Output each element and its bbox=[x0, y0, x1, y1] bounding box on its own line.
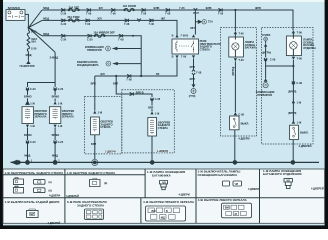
legend box1 connector (b) bbox=[14, 186, 24, 193]
row3 splice connector bbox=[118, 34, 124, 41]
legend box4 connector a bbox=[223, 181, 230, 186]
feed row junction dot right bbox=[140, 75, 142, 77]
svg-text:4 ДВЕРЕЙ: 4 ДВЕРЕЙ bbox=[48, 221, 61, 225]
svg-text:1-Ж: 1-Ж bbox=[58, 124, 63, 128]
fuse 15A MIRROR DEF bbox=[93, 30, 115, 37]
svg-text:4 ДВЕРЕЙ: 4 ДВЕРЕЙ bbox=[311, 187, 324, 191]
svg-text:20А P.DEF: 20А P.DEF bbox=[67, 15, 80, 19]
svg-text:1-ДВЕРИ: 1-ДВЕРИ bbox=[105, 150, 116, 154]
row1 splice connector bbox=[165, 8, 171, 15]
legend box2 connector bbox=[90, 178, 101, 186]
generator G1 bbox=[20, 61, 35, 68]
bottom page border bar bbox=[0, 225, 328, 229]
legend box5 bulb socket pictogram bbox=[284, 179, 292, 189]
legend box1 connector (c) bbox=[34, 179, 46, 184]
right page border bar bbox=[325, 0, 328, 229]
switch2 pin arrow bbox=[292, 120, 302, 124]
wire lighter to crossbar bbox=[266, 61, 294, 66]
wire battery to main junction bbox=[25, 14, 28, 26]
svg-text:ПРИБОРОВ: ПРИБОРОВ bbox=[87, 48, 102, 52]
svg-text:1-Ж ОБОГРЕВ ЗАДНЕГО СТЕКЛА: 1-Ж ОБОГРЕВ ЗАДНЕГО СТЕКЛА bbox=[67, 171, 117, 175]
svg-text:1-Ж ОБОГРЕВАТЕЛЬ ЗАДНЕГО СТЕКЛ: 1-Ж ОБОГРЕВАТЕЛЬ ЗАДНЕГО СТЕКЛА bbox=[5, 171, 65, 175]
left page border bar bbox=[0, 0, 3, 229]
svg-text:ЧЛ: ЧЛ bbox=[235, 182, 239, 186]
relay U1 rear window defogger relay bbox=[172, 39, 199, 54]
svg-text:ГЕНЕРАТОР: ГЕНЕРАТОР bbox=[20, 64, 35, 68]
svg-text:МОД: МОД bbox=[26, 53, 32, 57]
switch2 ground dot bbox=[291, 160, 296, 165]
svg-text:Г-06: Г-06 bbox=[85, 22, 91, 26]
right defogger ground wire bbox=[151, 136, 153, 162]
svg-text:(б): (б) bbox=[49, 188, 52, 192]
svg-text:4-ДВЕРИ: 4-ДВЕРИ bbox=[179, 192, 190, 196]
svg-text:1-Ж: 1-Ж bbox=[297, 121, 302, 125]
svg-text:(ГТИ): (ГТИ) bbox=[189, 94, 196, 98]
svg-text:Б: Б bbox=[172, 34, 174, 38]
legend row divider bbox=[3, 197, 325, 199]
svg-text:ПРИБОРОВ: ПРИБОРОВ bbox=[257, 93, 272, 97]
trunk compartment lamp EL2 bbox=[286, 33, 301, 55]
svg-text:М: М bbox=[235, 212, 237, 216]
switch1 ground wire bbox=[234, 130, 236, 162]
svg-text:ЦР: ЦР bbox=[30, 212, 34, 216]
row2 splice connector bbox=[124, 19, 130, 26]
svg-text:ОСВЕЩЕНИЯ БАГАЖНИКА: ОСВЕЩЕНИЯ БАГАЖНИКА bbox=[198, 173, 238, 177]
bus row 2 wire bbox=[42, 20, 177, 37]
row2 splice connector C-30 bbox=[61, 19, 67, 26]
svg-text:S-30: S-30 bbox=[31, 47, 37, 51]
svg-text:ЗЕРКАЛА: ЗЕРКАЛА bbox=[62, 115, 74, 119]
relay bottom pin 1 arrow bbox=[172, 55, 179, 59]
svg-text:СТЕКЛА: СТЕКЛА bbox=[100, 125, 110, 129]
svg-text:1-Ж: 1-Ж bbox=[297, 100, 302, 104]
svg-text:Г-06: Г-06 bbox=[86, 12, 92, 16]
row3 junction dot bbox=[132, 35, 134, 37]
svg-text:Г-08: Г-08 bbox=[127, 77, 133, 81]
svg-text:МГЛ: МГЛ bbox=[190, 77, 196, 81]
svg-text:Т-06: Т-06 bbox=[297, 31, 303, 35]
luggage lamp switch SA2 bbox=[290, 125, 299, 139]
svg-text:С-30: С-30 bbox=[61, 37, 67, 41]
svg-text:БАГАЖН.: БАГАЖН. bbox=[245, 46, 257, 50]
svg-text:БРЛ: БРЛ bbox=[148, 105, 153, 109]
svg-text:1-Ж: 1-Ж bbox=[155, 111, 160, 115]
svg-text:4-ДВЕРЕЙ: 4-ДВЕРЕЙ bbox=[66, 194, 79, 198]
row1 splice connector bbox=[111, 8, 117, 15]
relay top pin 2 arrow bbox=[181, 34, 196, 38]
right mirror branch splice C-20 bbox=[26, 87, 36, 95]
svg-text:Г-06: Г-06 bbox=[181, 55, 187, 59]
lamp1 pin arrow T-06 bbox=[234, 31, 245, 36]
svg-text:МОД: МОД bbox=[43, 32, 49, 36]
right defogger splice C-08 bbox=[150, 97, 160, 105]
svg-text:ЦИГРЫ: ЦИГРЫ bbox=[262, 50, 272, 54]
row2 tee stub bbox=[137, 19, 141, 22]
svg-text:ЖЛБ: ЖЛБ bbox=[153, 6, 159, 10]
relay output wire to defogger feed row bbox=[95, 58, 177, 76]
svg-text:Т-06: Т-06 bbox=[238, 32, 244, 36]
svg-text:ЖЛ: ЖЛ bbox=[99, 6, 103, 10]
left mirror ground splice C-20 bbox=[54, 131, 64, 162]
svg-text:С-20: С-20 bbox=[30, 87, 36, 91]
legend box6 connector bbox=[26, 209, 38, 217]
lamp1 to switch wire bbox=[234, 61, 236, 112]
switch2 ground wire bbox=[292, 140, 294, 162]
svg-text:БРЛ: БРЛ bbox=[91, 82, 96, 86]
svg-text:(в): (в) bbox=[104, 181, 107, 185]
fuse S-30 below junction bbox=[27, 30, 37, 37]
fusible link MAX 80A bbox=[27, 37, 37, 47]
svg-text:4-ДВЕРИ: 4-ДВЕРИ bbox=[49, 194, 60, 198]
battery GB1 bbox=[6, 10, 25, 21]
svg-text:S-МОД: S-МОД bbox=[50, 55, 59, 59]
svg-text:1-Ж ВЫКЛЮЧАТЕЛЬ ЗАДНЕЙ ДВЕРИ: 1-Ж ВЫКЛЮЧАТЕЛЬ ЗАДНЕЙ ДВЕРИ bbox=[5, 200, 60, 204]
svg-text:ВЗ: ВЗ bbox=[156, 72, 160, 76]
svg-text:БРЛ-Б: БРЛ-Б bbox=[136, 90, 144, 94]
relay top pin 1 arrow bbox=[172, 34, 179, 38]
svg-text:4 ДВЕРИ: 4 ДВЕРИ bbox=[248, 187, 259, 191]
main junction node bbox=[28, 10, 56, 52]
row1 splice connector G-06 bbox=[218, 8, 224, 15]
left mirror pin arrow 1-Zh bbox=[53, 98, 63, 105]
legend row2 column dividers bbox=[64, 198, 66, 224]
svg-text:Г-06: Г-06 bbox=[111, 12, 117, 16]
svg-text:С-08: С-08 bbox=[270, 57, 276, 61]
svg-text:Б: Б bbox=[172, 55, 174, 59]
svg-text:С-08: С-08 bbox=[155, 97, 161, 101]
svg-text:Т-06: Т-06 bbox=[297, 57, 303, 61]
feed row junction dot left bbox=[115, 75, 117, 77]
trunk lamp EL1 bbox=[229, 34, 244, 57]
bus row 3 wire bbox=[42, 36, 141, 49]
svg-text:4 ДВЕРИ: 4 ДВЕРИ bbox=[238, 137, 249, 141]
legend box1 connector (d) bbox=[34, 188, 46, 193]
svg-text:S-30: S-30 bbox=[31, 30, 37, 34]
svg-text:МОД: МОД bbox=[24, 154, 30, 158]
lighter splice arrow C-08 bbox=[264, 47, 276, 62]
svg-text:БМ: БМ bbox=[225, 206, 229, 210]
svg-text:ЗАДНЕГО СТЕКЛА: ЗАДНЕГО СТЕКЛА bbox=[77, 203, 105, 207]
svg-text:МОД: МОД bbox=[43, 16, 49, 20]
relay ground chain wire bbox=[193, 58, 195, 84]
svg-text:ЖЛ: ЖЛ bbox=[97, 16, 101, 20]
svg-text:ЧЛ: ЧЛ bbox=[286, 179, 290, 183]
dashed enclosure rear defogger element left bbox=[85, 97, 122, 154]
trunk lamp switch SA1 bbox=[230, 116, 239, 130]
right mirror ground dot bbox=[25, 160, 30, 165]
left mirror heater element R2 bbox=[49, 107, 60, 124]
svg-text:(БРГЛ): (БРГЛ) bbox=[288, 111, 297, 115]
trunk lamp 2 feed wire from top row bbox=[292, 11, 294, 30]
legend box7 six pin connector bbox=[85, 209, 104, 219]
svg-text:Г-08: Г-08 bbox=[124, 22, 130, 26]
fuse 30A DEF bbox=[68, 5, 79, 11]
svg-text:(а): (а) bbox=[49, 180, 52, 184]
svg-text:Т2А: Т2А bbox=[208, 20, 213, 24]
legend box8 multi pin connector bbox=[146, 206, 186, 221]
svg-text:1-Ж: 1-Ж bbox=[30, 101, 35, 105]
lamp1 bottom pin arrow T-06 bbox=[234, 58, 245, 62]
left defogger pin arrow 1-Zh bbox=[93, 101, 103, 114]
branch splice connector bbox=[130, 90, 144, 95]
row1 splice connector bbox=[141, 8, 147, 15]
svg-text:МГЛ: МГЛ bbox=[190, 65, 196, 69]
svg-text:С-08: С-08 bbox=[296, 81, 302, 85]
left defogger ground wire bbox=[94, 135, 96, 159]
svg-text:СГИВЗ: СГИВЗ bbox=[262, 33, 271, 37]
svg-text:С-30: С-30 bbox=[61, 12, 67, 16]
svg-text:С-20: С-20 bbox=[30, 140, 36, 144]
row1 splice connector G-06 bbox=[86, 8, 92, 15]
dashed enclosure trunk lamp and switch left bbox=[221, 28, 257, 137]
ground bus left terminator bbox=[11, 160, 21, 166]
right mirror ground splice C-20 bbox=[26, 131, 36, 162]
legend row1 column dividers bbox=[64, 169, 66, 198]
lamp2 bottom pin arrow T-06 bbox=[292, 57, 303, 61]
AC switch indicator arrow bbox=[106, 61, 118, 66]
right mirror pin arrow 1-Zh bbox=[26, 98, 36, 105]
row1 splice connector C-30 bbox=[61, 8, 67, 15]
left mirror branch splice C-20 bbox=[54, 87, 64, 95]
right mirror heater element R1 bbox=[22, 107, 33, 124]
svg-text:4-Ж ОБОГРЕВ ПРАВОГО ЗЕРКАЛА: 4-Ж ОБОГРЕВ ПРАВОГО ЗЕРКАЛА bbox=[143, 200, 195, 204]
cigarette lighter symbol bbox=[262, 33, 272, 54]
branch to right defogger element bbox=[116, 76, 152, 97]
svg-text:10А ROOM: 10А ROOM bbox=[123, 4, 136, 8]
left mirror ground dot bbox=[53, 160, 58, 165]
svg-text:С-20: С-20 bbox=[58, 87, 64, 91]
svg-text:Б: Б bbox=[166, 209, 168, 213]
lamp2 pin arrow T-06 bbox=[292, 30, 303, 34]
legend panel background bbox=[3, 169, 325, 223]
row2 splice connector bbox=[149, 19, 155, 26]
row3 splice connector bbox=[61, 34, 67, 41]
svg-text:БАГАЖНОГО ОТДЕЛЕНИЯ: БАГАЖНОГО ОТДЕЛЕНИЯ bbox=[263, 172, 301, 176]
svg-text:БРЛ: БРЛ bbox=[91, 142, 96, 146]
svg-text:МГЛ: МГЛ bbox=[190, 26, 196, 30]
left rear window defogger element R3 bbox=[91, 117, 100, 135]
vertical feed to instrument cluster and AC switch bbox=[117, 49, 141, 77]
wire to generator bbox=[27, 51, 29, 61]
svg-text:КОНДИЦИОНЕРА: КОНДИЦИОНЕРА bbox=[77, 63, 99, 67]
svg-text:БРМО: БРМО bbox=[24, 94, 32, 98]
svg-text:Г-06: Г-06 bbox=[149, 22, 155, 26]
lamp2 to switch2 wire bbox=[292, 60, 294, 121]
legend box1 connector (a) bbox=[14, 178, 24, 185]
fuse 20A POWER bbox=[67, 15, 80, 22]
right rear window defogger element R4 bbox=[148, 118, 157, 136]
legend box9 multi pin connector bbox=[222, 203, 252, 218]
row3 splice connector C-20 bbox=[87, 34, 93, 41]
svg-text:БРЛ: БРЛ bbox=[113, 82, 118, 86]
legend box4 connector b bbox=[233, 181, 242, 186]
svg-text:ВЫКЛ.: ВЫКЛ. bbox=[241, 121, 250, 125]
row1 junction dot to trunk lamp 1 bbox=[234, 9, 236, 11]
svg-text:МОД: МОД bbox=[43, 6, 49, 10]
courtesy buzzer indicator bbox=[198, 20, 213, 24]
svg-text:ЖЛБ: ЖЛБ bbox=[206, 6, 212, 10]
svg-text:Б-07: Б-07 bbox=[193, 11, 199, 15]
fuse below fusible link bbox=[27, 46, 37, 51]
chain pin arrow bbox=[292, 100, 302, 104]
svg-text:4-Ж ОБОГРЕВ ЛЕВОГО ЗЕРКАЛА: 4-Ж ОБОГРЕВ ЛЕВОГО ЗЕРКАЛА bbox=[198, 198, 248, 202]
svg-text:С-20: С-20 bbox=[58, 140, 64, 144]
right defogger pin arrow 1-Zh bbox=[150, 109, 160, 116]
row2 splice connector bbox=[85, 19, 91, 26]
svg-text:С-20: С-20 bbox=[87, 37, 93, 41]
dashed enclosure rear defogger element right bbox=[122, 90, 175, 153]
chassis ground ETND bbox=[189, 84, 196, 98]
switch1 pin arrow bbox=[234, 112, 245, 116]
svg-text:Т-06: Т-06 bbox=[238, 58, 244, 62]
svg-text:ЖЛБ: ЖЛБ bbox=[255, 6, 261, 10]
svg-text:Г-06: Г-06 bbox=[141, 12, 147, 16]
svg-text:Г-06: Г-06 bbox=[179, 6, 185, 10]
switch1 ground dot bbox=[233, 160, 238, 165]
svg-text:СТЕКЛА: СТЕКЛА bbox=[200, 47, 210, 51]
relay bottom pin 2 arrow bbox=[181, 55, 195, 59]
svg-text:Г-06 Б: Г-06 Б bbox=[181, 34, 189, 38]
svg-text:1-Ж: 1-Ж bbox=[30, 124, 35, 128]
svg-text:ВЫКЛ.: ВЫКЛ. bbox=[300, 131, 309, 135]
crossbar junction dot bbox=[292, 65, 294, 67]
svg-text:МОД: МОД bbox=[52, 154, 58, 158]
svg-text:ОТДЕЛЕН.: ОТДЕЛЕН. bbox=[303, 46, 316, 50]
trunk lamp 1 feed wire bbox=[234, 10, 236, 31]
svg-text:1-Ж: 1-Ж bbox=[58, 101, 63, 105]
svg-text:ЧЛ: ЧЛ bbox=[162, 180, 166, 184]
right defogger ground dot bbox=[150, 160, 155, 165]
svg-text:80А: 80А bbox=[31, 40, 36, 44]
svg-text:4-ДВЕРЕЙ: 4-ДВЕРЕЙ bbox=[299, 144, 312, 148]
ground chain connector arrow G-08 bbox=[192, 70, 202, 75]
svg-text:1-Ж: 1-Ж bbox=[98, 111, 103, 115]
svg-text:МД: МД bbox=[161, 215, 165, 219]
svg-text:15А MIRROR DEF: 15А MIRROR DEF bbox=[93, 30, 115, 34]
bus row 1 wire bbox=[42, 10, 293, 27]
svg-text:(БРГЛ): (БРГЛ) bbox=[288, 90, 297, 94]
row1 tee to buzzer branch bbox=[193, 8, 199, 15]
svg-text:БРМО: БРМО bbox=[52, 94, 60, 98]
mirror heater feed wire S-MOD bbox=[28, 52, 56, 87]
svg-text:Г-06: Г-06 bbox=[165, 12, 171, 16]
welded ground point bbox=[92, 159, 98, 165]
switch2 chain splice arrow C-08 bbox=[292, 81, 303, 85]
instrument cluster indicator right bbox=[263, 66, 268, 88]
svg-text:Г-08: Г-08 bbox=[118, 37, 124, 41]
svg-text:1-ДВЕРИ: 1-ДВЕРИ bbox=[157, 149, 168, 153]
svg-text:С-30: С-30 bbox=[61, 22, 67, 26]
fuse 10A ROOM bbox=[123, 4, 136, 12]
dashed enclosure luggage compartment right bbox=[262, 28, 314, 145]
left mirror bottom pin arrow bbox=[53, 124, 63, 130]
svg-text:БМ: БМ bbox=[152, 209, 156, 213]
ground bus bbox=[11, 161, 320, 163]
left defogger element feed wire bbox=[94, 76, 96, 101]
svg-text:(БРРЦ): (БРРЦ) bbox=[231, 67, 235, 76]
svg-text:БАГАЖНИКА: БАГАЖНИКА bbox=[152, 174, 172, 178]
svg-text:ЗЕРКАЛА: ЗЕРКАЛА bbox=[34, 115, 46, 119]
right mirror bottom pin arrow bbox=[26, 124, 36, 130]
top light strip bbox=[0, 0, 328, 2]
svg-text:СТЕКЛА: СТЕКЛА bbox=[158, 126, 168, 130]
feed row splice connector G-08 bbox=[127, 74, 133, 81]
svg-text:ЖЛ: ЖЛ bbox=[161, 16, 165, 20]
instrument cluster indicator arrow bbox=[106, 46, 118, 51]
legend box3 bulb socket pictogram bbox=[160, 180, 168, 189]
svg-text:Г-08: Г-08 bbox=[196, 71, 202, 75]
svg-text:Г-06: Г-06 bbox=[218, 12, 224, 16]
buzzer feed wire from row1 tee bbox=[195, 11, 197, 34]
svg-text:ЖЛ: ЖЛ bbox=[100, 72, 104, 76]
